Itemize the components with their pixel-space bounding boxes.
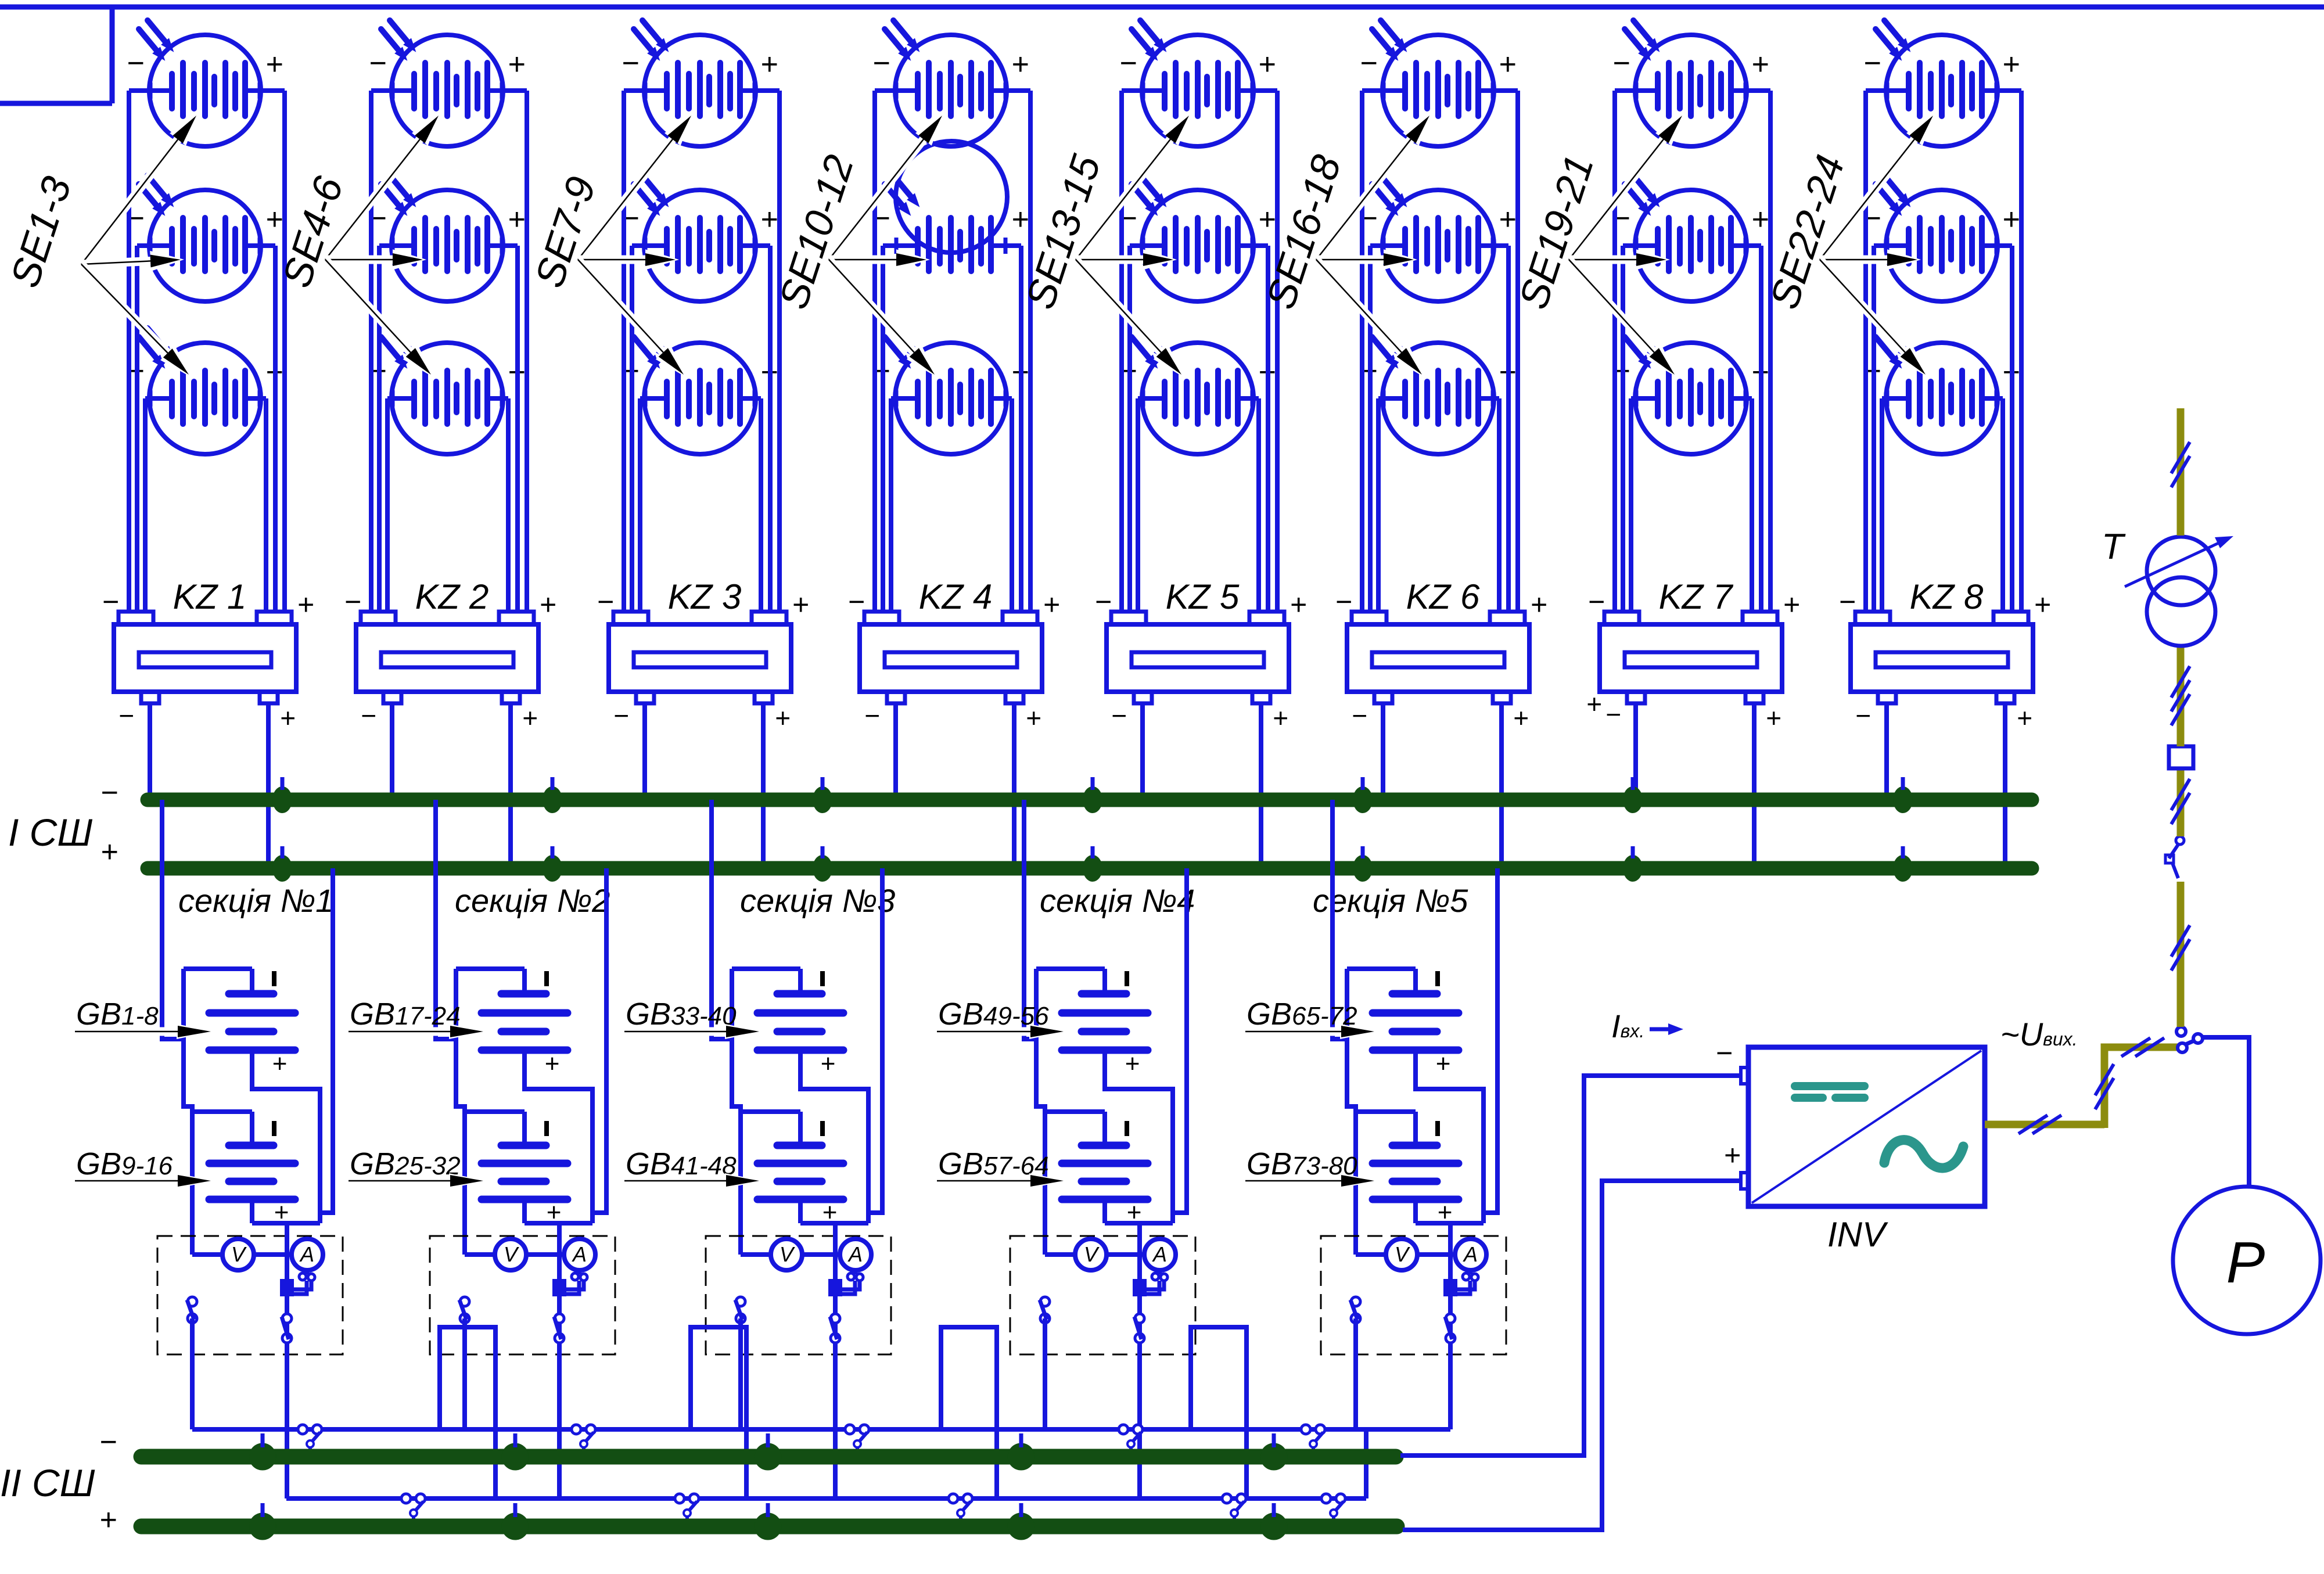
wire right lead SE18 — [1493, 396, 1499, 401]
photovoltaic cell SE14 — [1132, 175, 1253, 301]
wire left lead SE8 — [632, 243, 645, 248]
ammeter link section 5 — [1456, 1269, 1478, 1294]
wire left lead SE12 — [891, 396, 896, 401]
wire KZ 1 minus to I bus — [148, 703, 152, 800]
svg-text:−: − — [361, 700, 376, 731]
junction box KZ 6 — [1347, 612, 1529, 703]
label секція №4 — [1040, 882, 1195, 919]
AC riser slashes 5 — [2171, 666, 2190, 725]
wire right lead SE22 — [1996, 88, 2021, 93]
label minus KZ 3 top — [597, 585, 613, 618]
wire right lead SE7 — [755, 88, 780, 93]
drawing frame corner box — [0, 7, 112, 103]
battery bank GB33-40 — [732, 969, 843, 1078]
wire section 1 rail to bottom — [190, 1318, 195, 1429]
label plus KZ 1 bottom — [280, 703, 296, 733]
svg-text:+: + — [1766, 703, 1781, 733]
label plus KZ 5 bottom — [1273, 703, 1288, 733]
wire bundle left column 5 row 1 — [1119, 91, 1124, 612]
label minus SE16 — [1360, 46, 1377, 80]
switch to II plus bus 3 — [949, 1494, 972, 1522]
svg-text:GB9-16: GB9-16 — [76, 1147, 173, 1181]
label plus KZ 6 top — [1530, 588, 1547, 621]
label minus SE1 — [127, 46, 144, 80]
label SE16-18 — [1258, 150, 1349, 314]
battery bank GB73-80 — [1356, 1112, 1459, 1227]
wire bundle left column 4 row 3 — [889, 398, 893, 612]
svg-text:+: + — [280, 703, 296, 733]
label GB25-32 — [350, 1147, 461, 1181]
label секція №3 — [740, 882, 895, 919]
label plus SE7 — [760, 48, 778, 81]
label SE19-21 — [1510, 150, 1602, 314]
switch to II plus bus 4 — [1222, 1494, 1246, 1522]
wire KZ 3 minus to I bus — [642, 703, 647, 800]
wire left lead SE6 — [387, 396, 393, 401]
wire left lead SE15 — [1138, 396, 1143, 401]
wire left lead SE13 — [1122, 88, 1143, 93]
svg-text:−: − — [369, 46, 386, 80]
junction dot II bus minus 1 — [249, 1433, 276, 1470]
label minus SE3 — [127, 354, 144, 388]
svg-text:+: + — [775, 703, 791, 733]
switch section 5 rail — [1350, 1297, 1360, 1323]
photovoltaic cell SE7 — [634, 20, 756, 146]
svg-text:+: + — [1011, 203, 1029, 236]
wire left lead SE24 — [1882, 396, 1887, 401]
inverter AC symbol — [1884, 1140, 1963, 1168]
wire bundle left column 4 row 2 — [881, 246, 885, 612]
wire right lead SE20 — [1745, 243, 1761, 248]
label plus SE23 — [2002, 203, 2020, 236]
junction dot I bus plus 1 — [272, 846, 292, 882]
svg-text:секція №3: секція №3 — [740, 882, 895, 919]
label I bus plus — [100, 835, 118, 869]
svg-text:INV: INV — [1827, 1215, 1888, 1254]
ammeter A section 2 — [564, 1239, 595, 1270]
wire section 4 plus feeder from I bus — [1173, 868, 1187, 1213]
svg-text:−: − — [1587, 585, 1604, 618]
wire KZ 8 minus to I bus — [1884, 703, 1889, 800]
leader arrow GB9-16 — [75, 1173, 214, 1188]
wire left lead SE5 — [379, 243, 393, 248]
label KZ 4 — [919, 577, 993, 616]
svg-text:+: + — [1273, 703, 1288, 733]
AC riser upper — [2177, 646, 2185, 746]
switch QS riser — [2165, 836, 2184, 878]
photovoltaic cell SE9 — [634, 328, 756, 454]
label KZ 3 — [668, 577, 742, 616]
svg-text:+: + — [1043, 588, 1059, 621]
battery bank GB41-48 — [741, 1112, 843, 1227]
wire right lead SE10 — [1005, 88, 1030, 93]
wire section 4 left rail — [1036, 1039, 1045, 1255]
photovoltaic cell SE23 — [1876, 175, 1998, 301]
wire section 5 minus feeder from I bus — [1332, 800, 1347, 1039]
photovoltaic cell SE18 — [1372, 328, 1494, 454]
junction dot II bus minus 3 — [755, 1433, 781, 1470]
label minus KZ 2 bottom — [361, 700, 376, 731]
leader arrow GB1-8 — [75, 1024, 214, 1039]
wire section 3 left rail — [732, 1039, 741, 1255]
label GB73-80 — [1247, 1147, 1357, 1181]
wire section 1 ammeter branch — [285, 1223, 289, 1498]
wire KZ 2 plus to I bus — [508, 703, 513, 868]
switch to II minus bus 4 — [1119, 1425, 1143, 1453]
wire section 5 plus drop — [1364, 1429, 1368, 1498]
bus I CIII minus — [148, 793, 2032, 807]
wire section 3 rail to bottom — [738, 1318, 743, 1429]
label minus SE8 — [622, 202, 639, 235]
wire section 1 minus feeder from I bus — [162, 800, 184, 1039]
svg-text:A: A — [1463, 1242, 1478, 1266]
label I input current — [1611, 1008, 1644, 1044]
transformer T — [2125, 536, 2233, 646]
label plus SE24 — [2002, 355, 2020, 389]
wire section 5 battery1 left rail up — [1345, 969, 1349, 1039]
photovoltaic cell SE17 — [1372, 175, 1494, 301]
wire bundle right column 4 row 2 — [1019, 246, 1023, 612]
wire left lead SE3 — [145, 396, 150, 401]
wire section 1 battery1 left rail up — [181, 969, 186, 1039]
junction box KZ 8 — [1851, 612, 2033, 703]
wire meters section 2 — [465, 1252, 564, 1257]
svg-text:−: − — [1094, 585, 1111, 618]
junction dot I bus minus 2 — [543, 777, 562, 813]
svg-text:A: A — [572, 1242, 587, 1266]
photovoltaic cell SE24 — [1876, 328, 1998, 454]
svg-text:KZ 3: KZ 3 — [668, 577, 742, 616]
svg-text:−: − — [1612, 46, 1630, 80]
measurement box section 2 — [430, 1236, 615, 1354]
svg-text:KZ 8: KZ 8 — [1910, 577, 1984, 616]
switch to II minus bus 3 — [845, 1425, 869, 1453]
wire bundle right column 8 row 3 — [2000, 398, 2005, 612]
svg-text:V: V — [780, 1242, 795, 1266]
label plus KZ 1 top — [297, 588, 314, 621]
label minus KZ 5 bottom — [1111, 700, 1127, 731]
label II bus plus — [99, 1503, 117, 1537]
svg-text:−: − — [597, 585, 613, 618]
wire bundle left column 2 row 2 — [377, 246, 382, 612]
junction dot I bus minus 5 — [1353, 777, 1373, 813]
junction box KZ 1 — [114, 612, 296, 703]
label minus SE9 — [622, 354, 639, 388]
label T — [2102, 527, 2126, 567]
wire bundle left column 1 row 1 — [127, 91, 131, 612]
label GB41-48 — [626, 1147, 737, 1181]
leader arrow GB73-80 — [1245, 1173, 1378, 1188]
wire right lead SE9 — [755, 396, 761, 401]
junction box KZ 4 — [860, 612, 1042, 703]
leader arrows SE22-24 — [1820, 113, 1935, 377]
wire bundle right column 7 row 3 — [1750, 398, 1754, 612]
wire bundle left column 6 row 2 — [1368, 246, 1373, 612]
svg-text:−: − — [102, 585, 118, 618]
wire left lead SE7 — [624, 88, 645, 93]
svg-text:A: A — [1152, 1242, 1167, 1266]
wire GB65-72 plus exit — [1416, 1050, 1484, 1223]
photovoltaic cell SE15 — [1132, 328, 1253, 454]
label plus SE15 — [1258, 355, 1276, 389]
voltmeter V section 4 — [1075, 1239, 1107, 1270]
wire bundle right column 2 row 1 — [525, 91, 529, 612]
svg-text:+: + — [1435, 1050, 1450, 1078]
svg-text:+: + — [1258, 203, 1276, 236]
label plus SE13 — [1258, 48, 1276, 81]
label minus SE10 — [872, 46, 890, 80]
leader arrow GB49-56 — [937, 1024, 1067, 1039]
junction dot I bus minus 4 — [1083, 777, 1102, 813]
svg-text:+: + — [1530, 588, 1547, 621]
junction dot II bus plus 4 — [1008, 1503, 1035, 1540]
wire section 1 plus feeder from I bus — [320, 868, 333, 1213]
wire GB9-16 plus lead — [252, 1199, 320, 1223]
wire bundle left column 4 row 1 — [872, 91, 877, 612]
label minus SE22 — [1863, 46, 1881, 80]
label I CIII — [8, 811, 92, 854]
leader arrow GB17-24 — [349, 1024, 487, 1039]
label plus KZ 4 top — [1043, 588, 1059, 621]
ammeter A section 5 — [1455, 1239, 1486, 1270]
label plus KZ 7 bottom — [1766, 703, 1781, 733]
svg-text:−: − — [1605, 699, 1621, 729]
svg-text:−: − — [1111, 700, 1127, 731]
label minus KZ 7 top — [1587, 585, 1604, 618]
wire bundle left column 3 row 2 — [630, 246, 634, 612]
label minus KZ 4 bottom — [864, 700, 880, 731]
svg-text:+: + — [100, 835, 118, 869]
wire section 5 left rail — [1347, 1039, 1356, 1255]
svg-text:+: + — [1125, 1050, 1140, 1078]
label minus SE19 — [1612, 46, 1630, 80]
svg-text:−: − — [613, 700, 629, 731]
svg-text:секція №1: секція №1 — [178, 882, 333, 919]
switch to II plus bus 2 — [675, 1494, 699, 1522]
wire bundle left column 5 row 3 — [1136, 398, 1140, 612]
measurement box section 4 — [1010, 1236, 1195, 1354]
wire right lead SE12 — [1005, 396, 1012, 401]
junction dot II bus minus 4 — [1008, 1433, 1035, 1470]
AC line slashes 2b — [2121, 1038, 2164, 1056]
label SE22-24 — [1761, 150, 1853, 314]
svg-text:−: − — [1863, 46, 1881, 80]
label minus SE18 — [1360, 354, 1377, 388]
wire bundle left column 6 row 3 — [1376, 398, 1381, 612]
wire meters section 4 — [1045, 1252, 1144, 1257]
leader arrows SE19-21 — [1569, 113, 1684, 377]
label секція №1 — [178, 882, 333, 919]
svg-text:V: V — [504, 1242, 519, 1266]
wire section 2 ammeter branch — [557, 1223, 562, 1498]
photovoltaic cell SE6 — [381, 328, 503, 454]
wire bottom minus horizontal — [192, 1427, 1450, 1432]
wire section 5 plus feeder from I bus — [1484, 868, 1497, 1213]
svg-text:+: + — [508, 203, 525, 236]
photovoltaic cell SE12 — [885, 328, 1007, 454]
photovoltaic cell SE8 — [634, 175, 756, 301]
switch to II plus bus 1 — [401, 1494, 425, 1522]
wire bundle left column 8 row 1 — [1863, 91, 1868, 612]
junction dot I bus minus 6 — [1623, 777, 1643, 813]
arrow I input — [1650, 1023, 1683, 1035]
switch to II plus bus 5 — [1321, 1494, 1345, 1522]
label plus KZ 8 top — [2034, 588, 2050, 621]
label minus KZ 5 top — [1094, 585, 1111, 618]
label KZ 5 — [1166, 577, 1240, 616]
svg-text:KZ 2: KZ 2 — [415, 577, 489, 616]
label minus SE20 — [1612, 202, 1630, 235]
wire right lead SE24 — [1996, 396, 2003, 401]
label plus KZ 4 bottom — [1026, 703, 1041, 733]
ammeter link section 3 — [841, 1269, 863, 1294]
svg-text:+: + — [1289, 588, 1306, 621]
wire bundle right column 5 row 2 — [1266, 246, 1270, 612]
wire bundle right column 7 row 2 — [1759, 246, 1763, 612]
wire bundle right column 1 row 2 — [273, 246, 278, 612]
wire section 4 ammeter branch — [1137, 1223, 1142, 1498]
wire GB49-56 plus exit — [1105, 1050, 1173, 1223]
label plus KZ 7 bottom-left — [1586, 689, 1602, 719]
label plus SE21 — [1751, 355, 1769, 389]
leader arrows SE13-15 — [1076, 113, 1191, 377]
junction dot I bus plus 4 — [1083, 846, 1102, 882]
svg-text:+: + — [1026, 703, 1041, 733]
battery bank GB25-32 — [465, 1112, 567, 1227]
switch to II minus bus 5 — [1301, 1425, 1325, 1453]
svg-text:KZ 4: KZ 4 — [919, 577, 993, 616]
wire section 3 plus feeder from I bus — [868, 868, 882, 1213]
measurement box section 5 — [1321, 1236, 1506, 1354]
inverter INV box — [1741, 1047, 1985, 1206]
wire KZ 7 plus to I bus — [1752, 703, 1757, 868]
leader arrows SE16-18 — [1316, 113, 1432, 377]
wire section 5 rail to bottom — [1353, 1318, 1358, 1429]
wire bundle right column 3 row 3 — [759, 398, 763, 612]
voltmeter V section 3 — [771, 1239, 802, 1270]
label minus SE2 — [127, 202, 144, 235]
AC line slashes 1 — [2018, 1115, 2061, 1134]
wire bundle right column 5 row 3 — [1256, 398, 1261, 612]
svg-text:GB17-24: GB17-24 — [350, 997, 461, 1032]
wire right lead SE16 — [1493, 88, 1518, 93]
wire bundle right column 6 row 3 — [1497, 398, 1502, 612]
svg-text:V: V — [1084, 1242, 1100, 1266]
svg-text:T: T — [2102, 527, 2126, 567]
wire bundle right column 4 row 1 — [1028, 91, 1033, 612]
label GB1-8 — [76, 997, 159, 1032]
measurement box section 1 — [157, 1236, 343, 1354]
svg-text:I СШ: I СШ — [8, 811, 92, 854]
label SE4-6 — [274, 171, 351, 293]
AC riser slashes 3 — [2171, 925, 2190, 971]
label P — [2226, 1230, 2265, 1295]
wire right lead SE23 — [1996, 243, 2012, 248]
svg-text:KZ 7: KZ 7 — [1659, 577, 1734, 616]
wire bundle right column 5 row 1 — [1275, 91, 1280, 612]
switch section 1 ammeter branch — [282, 1314, 292, 1343]
wire switch to load P — [2202, 1037, 2249, 1187]
wire left lead SE11 — [883, 243, 896, 248]
label plus SE3 — [265, 355, 283, 389]
photovoltaic cell SE1 — [139, 20, 261, 146]
label plus SE1 — [265, 48, 283, 81]
label minus SE15 — [1119, 354, 1137, 388]
svg-text:+: + — [522, 703, 538, 733]
bridge link 4 — [1191, 1327, 1247, 1498]
wire bundle right column 8 row 1 — [2019, 91, 2024, 612]
wire right lead SE3 — [260, 396, 266, 401]
label GB17-24 — [350, 997, 461, 1032]
switch QS output — [2176, 1027, 2203, 1052]
wire bundle left column 6 row 1 — [1360, 91, 1364, 612]
svg-text:−: − — [1715, 1037, 1732, 1069]
switch to II minus bus 2 — [572, 1425, 595, 1453]
ammeter A section 3 — [840, 1239, 871, 1270]
label INV — [1827, 1215, 1888, 1254]
label minus KZ 4 top — [847, 585, 864, 618]
svg-text:V: V — [231, 1242, 247, 1266]
label plus SE8 — [760, 203, 778, 236]
wire left lead SE21 — [1631, 396, 1636, 401]
label plus KZ 3 bottom — [775, 703, 791, 733]
AC riser slashes 4 — [2171, 779, 2190, 824]
wire bundle left column 2 row 1 — [369, 91, 373, 612]
svg-text:−: − — [118, 700, 134, 731]
svg-text:+: + — [2002, 48, 2020, 81]
switch section 1 rail — [187, 1297, 197, 1323]
svg-text:+: + — [760, 48, 778, 81]
svg-text:−: − — [1352, 700, 1367, 731]
wire left lead SE1 — [129, 88, 150, 93]
voltmeter V section 2 — [495, 1239, 526, 1270]
wire left lead SE17 — [1370, 243, 1384, 248]
junction dot I bus plus 2 — [543, 846, 562, 882]
switch section 2 rail — [459, 1297, 469, 1323]
wire GB17-24 plus exit — [525, 1050, 592, 1223]
svg-text:+: + — [792, 588, 809, 621]
wire right lead SE15 — [1252, 396, 1259, 401]
label GB33-40 — [626, 997, 737, 1032]
svg-text:+: + — [820, 1050, 835, 1078]
photovoltaic cell SE4 — [381, 20, 503, 146]
label INV minus — [1715, 1037, 1732, 1069]
photovoltaic cell SE20 — [1625, 175, 1747, 301]
svg-text:секція №2: секція №2 — [455, 882, 610, 919]
label plus SE14 — [1258, 203, 1276, 236]
label GB9-16 — [76, 1147, 173, 1181]
svg-text:−: − — [344, 585, 361, 618]
wire left lead SE19 — [1615, 88, 1636, 93]
wire bundle left column 1 row 3 — [143, 398, 148, 612]
wire GB33-40 plus exit — [800, 1050, 868, 1223]
bus II CIII minus — [141, 1449, 1396, 1465]
wire bundle left column 3 row 3 — [638, 398, 642, 612]
label I bus minus — [100, 776, 118, 810]
wire right lead SE1 — [260, 88, 285, 93]
label minus SE24 — [1863, 354, 1881, 388]
label KZ 6 — [1406, 577, 1480, 616]
svg-text:−: − — [622, 46, 639, 80]
svg-text:+: + — [1011, 48, 1029, 81]
junction dot II bus minus 2 — [502, 1433, 529, 1470]
svg-text:+: + — [760, 203, 778, 236]
svg-text:KZ 6: KZ 6 — [1406, 577, 1480, 616]
wire section 2 left rail — [456, 1039, 465, 1255]
shunt section 1 — [281, 1280, 293, 1295]
junction dot I bus plus 6 — [1623, 846, 1643, 882]
battery bank GB65-72 — [1347, 969, 1459, 1078]
